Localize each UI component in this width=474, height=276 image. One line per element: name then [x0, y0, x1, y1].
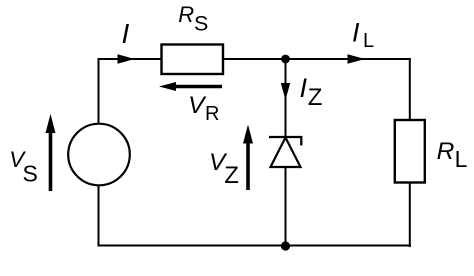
- svg-text:R: R: [205, 103, 219, 125]
- node: top junction dot: [281, 55, 290, 64]
- voltage arrow VS: [49, 131, 53, 191]
- wire: top junction down to zener cathode: [285, 59, 287, 137]
- voltage arrow VR (across RS): [175, 85, 222, 89]
- svg-text:L: L: [455, 146, 468, 172]
- svg-text:Z: Z: [224, 162, 239, 189]
- svg-text:L: L: [363, 30, 374, 52]
- wire: source top to top-left corner and to RS left terminal: [98, 58, 162, 125]
- svg-text:R: R: [437, 138, 455, 165]
- current arrow IZ on middle wire: [281, 83, 290, 100]
- svg-text:S: S: [194, 12, 208, 36]
- wire: zener anode down to bottom junction: [285, 167, 287, 246]
- node: bottom junction dot: [281, 241, 290, 250]
- current arrow I on top-left wire: [118, 54, 135, 64]
- wire: RL bottom to bottom-right corner: [284, 183, 411, 248]
- svg-text:I: I: [352, 18, 360, 48]
- svg-text:I: I: [122, 18, 130, 49]
- svg-text:Z: Z: [308, 84, 323, 111]
- voltage source VS circle: [68, 124, 130, 186]
- svg-text:S: S: [23, 161, 38, 187]
- wire: top-right corner down to RL: [409, 58, 411, 120]
- zener diode D1 cathode bar: [269, 137, 301, 146]
- resistor RL: [395, 120, 425, 183]
- wire: bottom junction to bottom-left corner: [98, 185, 288, 247]
- current arrow IL on top-right wire: [348, 54, 366, 64]
- wire: RS right terminal to top-right corner: [223, 58, 411, 60]
- svg-text:R: R: [178, 2, 194, 27]
- voltage arrow VZ: [246, 141, 250, 190]
- svg-text:I: I: [300, 73, 308, 103]
- resistor RS: [162, 45, 224, 75]
- zener diode D1 anode triangle: [271, 138, 301, 168]
